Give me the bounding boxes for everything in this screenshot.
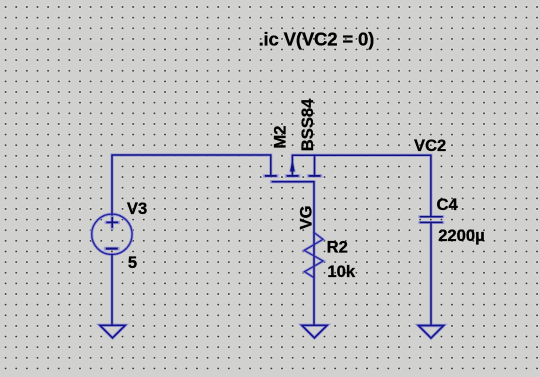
wire from V3 top to transistor M2 drain (top-left rail) (112, 155, 271, 215)
svg-text:M2: M2 (271, 126, 290, 149)
wire V3 bottom to ground (111, 255, 113, 326)
ground under C4 (418, 326, 443, 339)
svg-text:10k: 10k (327, 262, 355, 281)
svg-text:BSS84: BSS84 (298, 98, 317, 151)
wire from transistor M2 source to node VC2 and capacitor C4 (top-right rail) (292, 155, 431, 216)
resistor R2 zigzag (304, 233, 323, 278)
voltage source V3 (92, 214, 132, 254)
svg-text:VG: VG (297, 206, 316, 230)
svg-text:.ic V(VC2 = 0): .ic V(VC2 = 0) (259, 28, 375, 49)
gate wire from M2 through R2 down to ground (313, 182, 315, 326)
svg-text:VC2: VC2 (414, 136, 446, 155)
svg-text:2200µ: 2200µ (438, 226, 484, 245)
svg-text:C4: C4 (437, 195, 459, 214)
svg-text:R2: R2 (327, 237, 348, 256)
wire C4 bottom to ground (430, 223, 432, 326)
transistor M2 (PMOS BSS84, rotated) (265, 155, 321, 182)
ground under V3 (100, 325, 125, 338)
ground under R2 (302, 325, 327, 338)
capacitor C4 plates (420, 217, 443, 223)
svg-text:V3: V3 (127, 199, 147, 218)
svg-text:5: 5 (128, 253, 137, 272)
